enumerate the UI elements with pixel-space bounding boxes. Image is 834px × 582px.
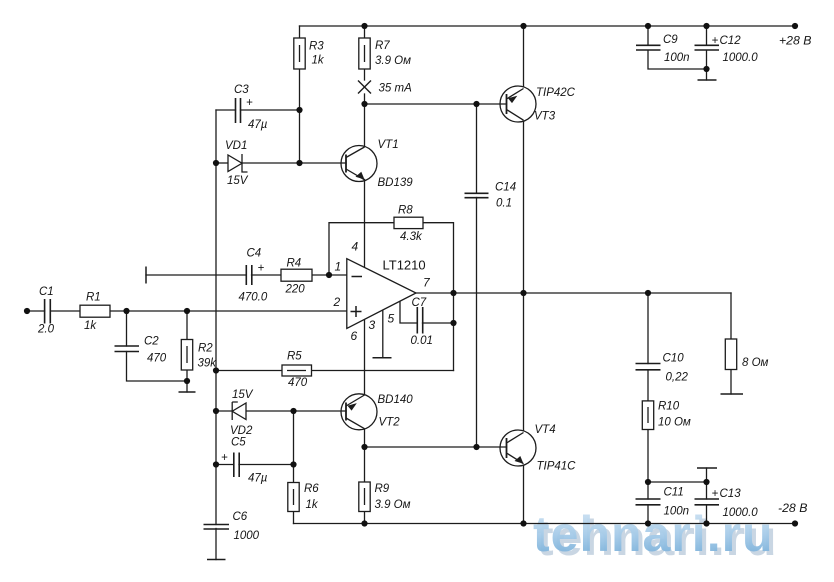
svg-text:+: + bbox=[221, 452, 228, 464]
wire C6 bottom lead bbox=[215, 529, 217, 560]
wire left column x216 bbox=[215, 110, 217, 525]
wire R8 left lead bbox=[329, 223, 394, 275]
wire VT1 collector bbox=[364, 104, 366, 147]
wire output column R8/C7/pin6 bbox=[453, 293, 455, 371]
svg-text:15V: 15V bbox=[227, 175, 249, 187]
svg-text:VT4: VT4 bbox=[535, 424, 556, 436]
svg-text:6: 6 bbox=[351, 329, 358, 343]
wire C3 left lead bbox=[216, 109, 236, 111]
wire R1 to op-amp pin 2 bbox=[110, 310, 347, 312]
resistor R2 bbox=[181, 340, 192, 371]
svg-text:0.01: 0.01 bbox=[411, 335, 433, 347]
junction dot VT4 emitter rail bbox=[520, 520, 526, 526]
junction dot C14 top bbox=[473, 101, 479, 107]
svg-text:C6: C6 bbox=[233, 511, 248, 523]
junction dot VT3/VT4 output bbox=[520, 290, 526, 296]
junction dot R5 left bbox=[213, 367, 219, 373]
ground at op-amp pin 3 bbox=[373, 357, 392, 359]
svg-text:C4: C4 bbox=[247, 248, 262, 260]
svg-text:15V: 15V bbox=[232, 389, 254, 401]
svg-text:100n: 100n bbox=[664, 52, 690, 64]
svg-text:BD139: BD139 bbox=[378, 177, 414, 189]
junction dot C9/C12 ground link bbox=[703, 66, 709, 72]
wire C12 bottom lead to ground bbox=[706, 50, 708, 80]
capacitor C9 bbox=[636, 45, 661, 50]
zener diode VD1 bbox=[228, 154, 248, 172]
wire op-amp pin 6 lead bbox=[364, 319, 366, 370]
svg-text:470.0: 470.0 bbox=[239, 292, 268, 304]
wire VT4 emitter down to rail bbox=[523, 466, 525, 524]
svg-text:+28 В: +28 В bbox=[779, 33, 811, 47]
wire C1 to R1 bbox=[50, 310, 80, 312]
svg-text:R6: R6 bbox=[304, 483, 319, 495]
svg-text:1k: 1k bbox=[306, 499, 319, 511]
ground below R2 bbox=[179, 391, 196, 393]
svg-text:C5: C5 bbox=[231, 437, 246, 449]
svg-text:47µ: 47µ bbox=[248, 473, 268, 485]
wire op-amp pin 3 ground lead bbox=[382, 310, 384, 358]
wire C2 top lead bbox=[126, 311, 128, 346]
svg-text:TIP42C: TIP42C bbox=[536, 87, 576, 99]
svg-text:1k: 1k bbox=[312, 55, 325, 67]
transistor VT2 BD140 bbox=[341, 394, 377, 430]
junction dot R9 bottom rail bbox=[361, 520, 367, 526]
wire VD2 cathode lead bbox=[216, 410, 232, 412]
wire VD2/C5/R6 column bbox=[293, 411, 295, 483]
resistor R10 bbox=[642, 401, 653, 430]
wire node to VT3 base bbox=[365, 103, 507, 105]
wire C13 bottom lead bbox=[706, 505, 708, 524]
wire R2 bottom lead bbox=[186, 370, 188, 392]
svg-text:8 Ом: 8 Ом bbox=[742, 357, 769, 369]
capacitor C7 bbox=[417, 307, 422, 334]
capacitor C4 bbox=[246, 265, 252, 285]
svg-text:C2: C2 bbox=[144, 336, 159, 348]
junction dot VT2 collector node bbox=[361, 444, 367, 450]
wire C12 top lead bbox=[706, 26, 708, 45]
wire C9 bottom lead to ground link bbox=[648, 50, 707, 69]
wire VD1 cathode to VT1 base bbox=[242, 162, 346, 164]
svg-text:R2: R2 bbox=[198, 343, 213, 355]
svg-text:0.1: 0.1 bbox=[496, 198, 512, 210]
wire R2 top lead bbox=[186, 311, 188, 340]
wire X mark to node below bbox=[364, 94, 366, 104]
wire C11 node to C13 column bbox=[648, 481, 707, 483]
junction dot zobel top bbox=[645, 290, 651, 296]
svg-text:2: 2 bbox=[333, 295, 341, 309]
junction dot C2/R2 ground node bbox=[184, 378, 190, 384]
wire R8 right lead down to output bbox=[423, 223, 454, 293]
svg-text:1k: 1k bbox=[84, 320, 97, 332]
wire C3 right lead to R3 column bbox=[241, 109, 300, 111]
svg-text:3.9 Ом: 3.9 Ом bbox=[375, 499, 411, 511]
input terminal node bbox=[24, 308, 30, 314]
wire VT3 emitter up to rail bbox=[523, 26, 525, 86]
wire VT4 collector up to output bbox=[523, 293, 525, 430]
capacitor C3 bbox=[236, 98, 241, 123]
svg-text:R10: R10 bbox=[658, 401, 680, 413]
junction dot C12 top rail bbox=[703, 23, 709, 29]
svg-text:-28 В: -28 В bbox=[778, 501, 807, 515]
wire VT2 collector node to VT4 base bbox=[365, 446, 507, 448]
svg-text:3: 3 bbox=[369, 318, 376, 332]
wire R10 to C11 node bbox=[647, 430, 649, 500]
capacitor C12 bbox=[695, 45, 720, 50]
resistor R8 bbox=[394, 217, 423, 228]
svg-text:5: 5 bbox=[388, 312, 395, 326]
op-amp minus input sign bbox=[352, 276, 363, 278]
svg-text:35 mA: 35 mA bbox=[379, 82, 413, 94]
svg-text:4: 4 bbox=[352, 240, 359, 254]
junction dot C5 left bbox=[213, 461, 219, 467]
svg-text:47µ: 47µ bbox=[248, 119, 268, 131]
svg-text:1000.0: 1000.0 bbox=[723, 52, 759, 64]
wire R4 to op-amp pin 1 bbox=[312, 274, 347, 276]
svg-text:+: + bbox=[712, 488, 719, 500]
svg-text:C1: C1 bbox=[39, 286, 54, 298]
wire zobel C10 top lead bbox=[647, 293, 649, 364]
svg-text:VT1: VT1 bbox=[378, 139, 399, 151]
svg-text:VD2: VD2 bbox=[230, 425, 253, 437]
resistor R5 bbox=[282, 365, 312, 376]
svg-text:4.3k: 4.3k bbox=[400, 231, 423, 243]
junction dot R10/C11 node bbox=[645, 479, 651, 485]
wire R7 top lead from rail bbox=[364, 26, 366, 38]
wire R6 bottom lead to rail bbox=[293, 512, 295, 524]
wire R5 right lead to output column bbox=[312, 370, 454, 372]
junction dot C13 bottom rail bbox=[703, 520, 709, 526]
svg-text:10 Ом: 10 Ом bbox=[658, 417, 691, 429]
svg-text:R7: R7 bbox=[375, 40, 390, 52]
wire input line from terminal to C1 bbox=[27, 310, 45, 312]
wire C2 bottom lead to R2 ground node bbox=[127, 352, 188, 382]
svg-text:1000: 1000 bbox=[234, 530, 260, 542]
svg-text:TIP41C: TIP41C bbox=[537, 461, 577, 473]
junction dot VD2 right bbox=[290, 408, 296, 414]
svg-text:LT1210: LT1210 bbox=[383, 257, 426, 272]
resistor R1 bbox=[80, 305, 110, 317]
wire C11 bottom lead bbox=[647, 505, 649, 524]
wire speaker 8 Ohm top lead bbox=[730, 293, 732, 339]
resistor 8 Ohm load bbox=[725, 339, 736, 370]
capacitor C1 bbox=[45, 299, 51, 324]
current measure X mark 35 mA bbox=[358, 81, 371, 94]
svg-text:R5: R5 bbox=[287, 351, 302, 363]
svg-text:220: 220 bbox=[285, 284, 306, 296]
svg-text:VT3: VT3 bbox=[534, 111, 556, 123]
watermark tehnari.ru bbox=[533, 506, 778, 566]
wire R5 left lead bbox=[216, 370, 282, 372]
resistor R3 bbox=[294, 38, 305, 69]
svg-text:1000.0: 1000.0 bbox=[723, 507, 759, 519]
svg-text:R4: R4 bbox=[287, 258, 302, 270]
wire op-amp pin 5 lead to C7 bbox=[400, 302, 417, 324]
resistor R9 bbox=[359, 482, 370, 512]
wire C4 stub lead bbox=[146, 274, 246, 276]
svg-text:+: + bbox=[712, 35, 719, 47]
svg-text:+: + bbox=[258, 263, 265, 275]
junction dot C13 column bbox=[703, 479, 709, 485]
svg-text:7: 7 bbox=[423, 275, 431, 289]
wire C9 top lead bbox=[647, 26, 649, 45]
svg-text:2.0: 2.0 bbox=[37, 324, 55, 336]
svg-text:VT2: VT2 bbox=[379, 417, 401, 429]
resistor R4 bbox=[281, 269, 312, 281]
junction dot C9 top rail bbox=[645, 23, 651, 29]
capacitor C10 bbox=[636, 364, 661, 370]
svg-text:C10: C10 bbox=[663, 353, 685, 365]
svg-text:BD140: BD140 bbox=[378, 394, 414, 406]
resistor R7 bbox=[359, 38, 370, 69]
junction dot VT3 column top rail bbox=[520, 23, 526, 29]
open stub terminal for C4 bbox=[145, 267, 147, 284]
svg-text:C7: C7 bbox=[412, 297, 427, 309]
junction dot VD1 right bbox=[296, 160, 302, 166]
capacitor C11 bbox=[636, 499, 661, 505]
svg-text:0,22: 0,22 bbox=[666, 372, 689, 384]
capacitor C6 bbox=[204, 525, 230, 530]
wire VD2 anode to VT2 base bbox=[246, 410, 346, 412]
wire C13 column bbox=[706, 468, 708, 499]
zener diode VD2 bbox=[232, 402, 246, 420]
junction dot R2 top bbox=[184, 308, 190, 314]
wire C14 column bottom to VT4 base node bbox=[476, 198, 478, 448]
wire R3 bottom lead down to VD1 node bbox=[299, 69, 301, 163]
terminal dot +28V bbox=[792, 23, 798, 29]
svg-text:C13: C13 bbox=[720, 488, 742, 500]
open end bar above C13 bbox=[697, 467, 717, 469]
junction dot output pin7 bbox=[450, 290, 456, 296]
transistor VT4 TIP41C bbox=[500, 430, 536, 466]
junction dot C5 right bbox=[290, 461, 296, 467]
svg-text:R1: R1 bbox=[86, 292, 101, 304]
op-amp plus input sign bbox=[351, 306, 362, 317]
svg-text:R8: R8 bbox=[398, 205, 413, 217]
wire VT1 emitter down to op-amp pin 4 bbox=[364, 180, 366, 268]
wire R3 top lead from rail bbox=[299, 26, 301, 38]
svg-text:1: 1 bbox=[335, 260, 342, 274]
svg-text:3.9 Ом: 3.9 Ом bbox=[375, 55, 411, 67]
open end bar below 8 Ohm bbox=[721, 393, 744, 395]
junction dot VT1 collector node bbox=[361, 101, 367, 107]
wire C4 to R4 bbox=[252, 274, 282, 276]
wire R7 bottom lead to X mark bbox=[364, 69, 366, 80]
capacitor C13 bbox=[695, 499, 720, 505]
svg-text:C12: C12 bbox=[720, 35, 742, 47]
junction dot VT4 base node bbox=[473, 444, 479, 450]
wire R9 bottom lead bbox=[364, 512, 366, 524]
svg-text:C3: C3 bbox=[234, 84, 249, 96]
wire VD1 anode lead bbox=[216, 162, 228, 164]
svg-text:C11: C11 bbox=[664, 487, 684, 499]
svg-text:470: 470 bbox=[147, 353, 167, 365]
svg-text:C14: C14 bbox=[495, 182, 516, 194]
ground below C12 bbox=[698, 79, 717, 81]
junction dot R7 top rail bbox=[361, 23, 367, 29]
wire VT3 collector down to output bbox=[523, 122, 525, 293]
svg-text:+: + bbox=[246, 97, 253, 109]
wire C14 column top bbox=[476, 104, 478, 193]
wire C5 right lead bbox=[239, 464, 294, 466]
junction dot VD1 left bbox=[213, 160, 219, 166]
svg-text:R3: R3 bbox=[309, 40, 324, 52]
resistor R6 bbox=[288, 483, 299, 512]
transistor VT1 BD139 bbox=[341, 146, 377, 182]
capacitor C14 bbox=[465, 193, 489, 197]
junction dot C7 right bbox=[450, 320, 456, 326]
junction dot R1 output node bbox=[123, 308, 129, 314]
wire VT2 collector down bbox=[364, 429, 366, 447]
svg-text:39k: 39k bbox=[198, 358, 218, 370]
junction dot inverting input node bbox=[326, 272, 332, 278]
svg-text:470: 470 bbox=[288, 377, 308, 389]
wire top +28V rail bbox=[300, 25, 796, 27]
wire C5 left lead bbox=[216, 464, 234, 466]
wire VT2 emitter up bbox=[364, 371, 366, 395]
capacitor C5 bbox=[234, 453, 239, 478]
capacitor C2 bbox=[115, 346, 140, 352]
terminal dot -28V bbox=[792, 520, 798, 526]
junction dot C3 right bbox=[296, 107, 302, 113]
ground bar below C6 bbox=[207, 559, 226, 561]
wire R9 top lead bbox=[364, 447, 366, 482]
wire C10 to R10 bbox=[647, 370, 649, 401]
svg-text:100n: 100n bbox=[664, 506, 690, 518]
junction dot VD2 left bbox=[213, 408, 219, 414]
svg-text:R9: R9 bbox=[375, 483, 390, 495]
junction dot C11 bottom rail bbox=[645, 520, 651, 526]
wire output from op-amp pin 7 bbox=[416, 292, 731, 294]
svg-text:VD1: VD1 bbox=[225, 140, 247, 152]
wire speaker 8 Ohm bottom lead bbox=[730, 370, 732, 395]
wire C7 right lead to output column bbox=[423, 322, 454, 324]
wire bottom -28V rail bbox=[294, 523, 796, 525]
svg-text:C9: C9 bbox=[663, 34, 678, 46]
transistor VT3 TIP42C bbox=[500, 86, 536, 122]
op-amp U1 LT1210 triangle bbox=[347, 259, 416, 329]
